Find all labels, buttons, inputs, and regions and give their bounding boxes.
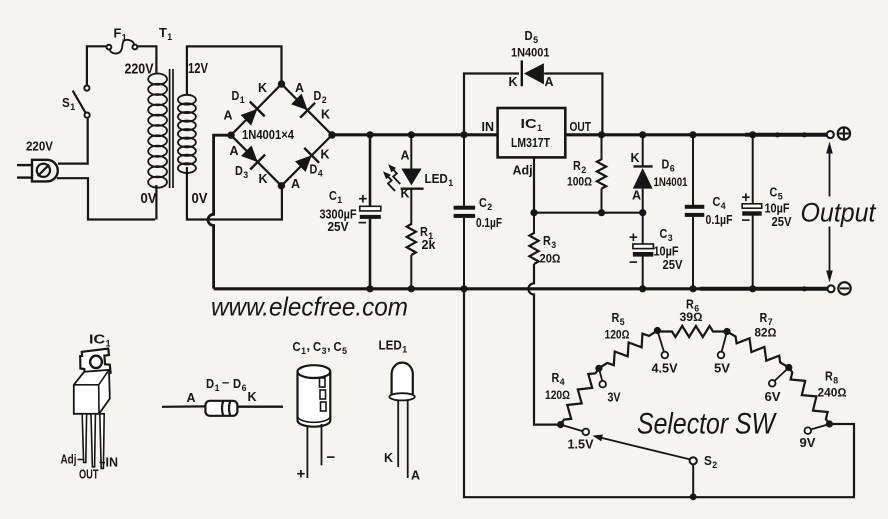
label F1	[114, 27, 128, 44]
label 6V	[765, 390, 782, 404]
label LM317T	[511, 136, 550, 150]
svg-text:IC: IC	[521, 116, 538, 131]
svg-text:T: T	[159, 26, 167, 40]
label R3 value	[540, 252, 561, 266]
label 5V	[714, 362, 731, 376]
LED LED1 light arrows	[383, 164, 400, 191]
label D6 K	[631, 151, 640, 165]
capacitor C1 plates	[360, 206, 381, 219]
svg-text:6: 6	[670, 164, 675, 175]
svg-text:LED: LED	[425, 172, 448, 186]
label R2	[573, 159, 586, 176]
node bridge bottom	[278, 182, 285, 189]
label C3 plus	[629, 229, 638, 246]
svg-text:240Ω: 240Ω	[818, 386, 847, 400]
svg-text:IN: IN	[106, 456, 119, 470]
label C3 minus	[629, 254, 638, 271]
svg-text:1: 1	[70, 102, 76, 113]
label IC1 package	[89, 332, 111, 350]
svg-text:IC: IC	[89, 332, 106, 347]
svg-text:−: −	[358, 215, 367, 232]
capacitor C4 wires	[692, 135, 694, 289]
wire Adj line	[534, 157, 643, 212]
label R1 value	[422, 238, 436, 252]
resistor R5	[599, 331, 658, 369]
svg-text:A: A	[295, 81, 304, 95]
svg-text:2: 2	[322, 95, 327, 106]
svg-text:R: R	[825, 370, 833, 384]
node C2 top	[460, 131, 467, 138]
svg-text:1: 1	[240, 95, 246, 106]
svg-text:S: S	[62, 96, 70, 110]
svg-text:1N4001: 1N4001	[654, 175, 688, 189]
label D2	[314, 89, 327, 106]
wire plug lower to transformer 0V	[57, 178, 155, 219]
label 3V	[608, 391, 622, 405]
label LED1 A	[401, 149, 410, 163]
label C2	[479, 196, 492, 213]
svg-text:LED: LED	[379, 339, 402, 353]
label OUT package	[79, 468, 99, 482]
svg-text:OUT: OUT	[79, 468, 99, 482]
wire negative bottom rail	[214, 287, 829, 290]
svg-text:220V: 220V	[125, 61, 154, 78]
label OUT	[570, 120, 592, 134]
node rail bump 2	[802, 132, 807, 137]
node LED top	[408, 131, 415, 138]
label LED A drawing	[411, 469, 420, 483]
capacitor C5 wires	[752, 135, 754, 289]
wire bridge edge D2	[282, 84, 333, 135]
wire LED branch top	[410, 135, 412, 169]
label C4	[713, 195, 727, 212]
svg-text:Output: Output	[801, 198, 877, 228]
svg-text:4: 4	[318, 169, 324, 180]
IC1 TO-220 body	[74, 370, 110, 414]
svg-text:K: K	[509, 75, 518, 89]
wire selector left drop	[464, 289, 854, 497]
svg-text:1: 1	[215, 383, 221, 394]
label S1	[62, 96, 76, 113]
svg-text:1N4001: 1N4001	[511, 46, 550, 60]
node R4 left	[557, 421, 564, 428]
node S2 bottom	[690, 493, 697, 500]
tap 6V	[769, 368, 789, 387]
svg-text:+: +	[297, 466, 306, 483]
svg-text:F: F	[114, 27, 122, 41]
node C5 top	[749, 131, 756, 138]
label 1N4001x4	[242, 128, 294, 142]
node R4 R5	[595, 365, 602, 372]
label Adj package	[61, 453, 84, 467]
svg-text:0.1µF: 0.1µF	[476, 216, 502, 230]
svg-text:D: D	[314, 89, 322, 103]
LED drawing	[389, 363, 414, 478]
label Output	[801, 198, 877, 228]
label 1.5V	[568, 438, 595, 452]
svg-text:K: K	[401, 187, 410, 201]
label R6 value	[680, 310, 703, 324]
svg-text:D: D	[662, 158, 670, 172]
label D6	[662, 158, 675, 175]
svg-text:3: 3	[243, 170, 248, 181]
IC1 leg IN	[100, 414, 104, 469]
label LED K drawing	[384, 451, 393, 465]
svg-text:A: A	[401, 149, 410, 163]
svg-text:120Ω: 120Ω	[545, 388, 570, 402]
svg-text:A: A	[632, 189, 641, 203]
svg-text:1: 1	[402, 345, 408, 356]
svg-text:R: R	[612, 311, 620, 325]
svg-text:4: 4	[721, 201, 727, 212]
label C1 plus	[359, 191, 368, 208]
svg-text:−: −	[327, 449, 336, 466]
label C1 value	[320, 208, 357, 222]
label IN package	[100, 456, 119, 470]
capacitor C5 plates	[742, 204, 762, 216]
label C1 C3 C5 drawing	[293, 338, 348, 357]
capacitor C3 wires	[642, 213, 644, 289]
svg-text:K: K	[631, 151, 640, 165]
node rail bump 1	[775, 132, 780, 137]
wire positive rail	[332, 133, 828, 136]
label R4 value	[545, 388, 570, 402]
svg-text:C: C	[329, 189, 337, 203]
svg-text:,: ,	[307, 338, 311, 353]
svg-text:–: –	[222, 375, 229, 390]
label C5 plus	[742, 189, 751, 206]
label C1 voltage	[328, 220, 350, 234]
svg-text:C: C	[293, 339, 302, 354]
node R8 right	[826, 420, 833, 427]
wire LED to R1	[410, 189, 412, 225]
svg-text:5V: 5V	[714, 362, 731, 376]
svg-text:IN: IN	[482, 120, 495, 134]
label C5	[770, 186, 784, 203]
node C4 top	[689, 131, 696, 138]
svg-text:LM317T: LM317T	[511, 136, 550, 150]
svg-text:12V: 12V	[188, 60, 208, 77]
IC1 TO-220 tab	[80, 349, 110, 376]
label R3	[543, 234, 556, 251]
label IN	[482, 120, 495, 134]
svg-text:D: D	[525, 28, 533, 43]
label D1 A	[224, 109, 233, 123]
label Selector SW	[637, 408, 777, 441]
svg-text:A: A	[291, 177, 300, 191]
label C3	[660, 227, 673, 244]
svg-text:4: 4	[560, 377, 566, 388]
switch S2 wiper arm	[592, 435, 690, 460]
node bridge right	[328, 131, 335, 138]
wire fuse to transformer	[137, 46, 156, 73]
svg-text:3: 3	[668, 233, 673, 244]
diode D4	[295, 148, 319, 172]
resistor R8	[789, 368, 830, 425]
svg-text:2k: 2k	[422, 238, 436, 252]
label R8 value	[818, 386, 847, 400]
svg-text:25V: 25V	[663, 258, 684, 272]
label S2	[704, 454, 717, 471]
resistor R2	[597, 159, 606, 188]
node Adj junction	[530, 209, 537, 216]
tap 3V	[599, 368, 606, 387]
svg-text:3: 3	[551, 240, 556, 251]
svg-text:C: C	[713, 195, 721, 209]
wire secondary bottom to bridge	[187, 167, 282, 220]
svg-text:1: 1	[337, 195, 343, 206]
label D6 A	[632, 189, 641, 203]
capacitor C4 plates	[685, 205, 705, 217]
output span arrow	[826, 142, 833, 283]
capacitor C3 plates	[633, 244, 654, 257]
wire D5 left leg	[464, 74, 519, 135]
wire plug to switch	[58, 117, 88, 163]
IC1 leg Adj	[82, 414, 86, 463]
electrolytic capacitor drawing	[298, 365, 331, 478]
svg-text:K: K	[321, 108, 330, 122]
node R2 top	[598, 131, 605, 138]
wire R3 to selector with hop	[528, 264, 560, 425]
label D2 A	[295, 81, 304, 95]
svg-text:120Ω: 120Ω	[605, 328, 630, 342]
label C5 minus	[742, 212, 751, 229]
switch S1	[73, 86, 90, 118]
svg-text:K: K	[258, 81, 267, 95]
label LED1 drawing	[379, 339, 408, 356]
label D5 A	[545, 75, 554, 89]
label 9V	[800, 436, 817, 450]
svg-text:K: K	[259, 172, 268, 186]
label R1	[420, 225, 434, 242]
node bridge top	[278, 80, 285, 87]
node C1 bottom	[366, 285, 373, 292]
node R5 R6	[654, 327, 661, 334]
label C2 value	[476, 216, 502, 230]
wire bridge edge D4	[281, 135, 332, 186]
label D2 K	[321, 108, 330, 122]
wire primary bottom	[155, 185, 157, 220]
node C3 bottom	[639, 285, 646, 292]
svg-text:10µF: 10µF	[765, 202, 790, 216]
label C3 value	[654, 245, 679, 259]
label R2 value	[567, 175, 592, 189]
node bridge left	[227, 132, 234, 139]
capacitor C2 wires	[463, 135, 465, 289]
label cap plus	[297, 466, 306, 483]
tap 5V	[718, 332, 727, 359]
svg-text:A: A	[545, 75, 554, 89]
label R6	[686, 298, 699, 315]
svg-text:2: 2	[712, 460, 717, 471]
node R6 R7	[723, 328, 730, 335]
svg-text:−: −	[629, 254, 638, 271]
svg-text:R: R	[420, 225, 428, 239]
svg-text:D: D	[310, 163, 318, 177]
svg-text:82Ω: 82Ω	[755, 326, 777, 340]
label R5 value	[605, 328, 630, 342]
svg-text:220V: 220V	[26, 140, 54, 154]
wire secondary top to bridge	[187, 46, 282, 94]
svg-text:R: R	[552, 371, 560, 385]
svg-text:C: C	[479, 196, 487, 210]
svg-text:www.elecfree.com: www.elecfree.com	[211, 292, 408, 322]
label D4 K	[321, 148, 330, 162]
svg-text:2: 2	[487, 202, 492, 213]
label R8	[825, 370, 838, 387]
svg-text:6: 6	[242, 383, 247, 394]
svg-text:1: 1	[167, 32, 173, 43]
svg-text:1: 1	[448, 178, 454, 189]
node R1 bottom	[408, 285, 415, 292]
label D4 A	[291, 177, 300, 191]
label R7	[760, 311, 773, 328]
node D6 bottom junction	[639, 209, 646, 216]
label 220V mains	[26, 140, 54, 154]
label C3 voltage	[663, 258, 684, 272]
label website	[211, 292, 408, 322]
svg-text:OUT: OUT	[570, 120, 592, 134]
node rail bump 3	[802, 286, 807, 291]
LED LED1 triangle	[401, 169, 424, 189]
svg-text:+: +	[359, 191, 368, 208]
label 0V primary	[141, 190, 157, 207]
resistor R4	[561, 368, 599, 424]
node C2 bottom	[460, 285, 467, 292]
svg-text:K: K	[248, 390, 257, 404]
label T1	[159, 26, 173, 43]
svg-text:0V: 0V	[141, 190, 157, 207]
diode D6	[633, 166, 653, 212]
transformer T1 primary winding	[148, 74, 167, 188]
node C1 top	[366, 131, 373, 138]
svg-text:D: D	[235, 164, 243, 178]
svg-text:K: K	[321, 148, 330, 162]
fuse F1	[107, 40, 138, 54]
svg-text:C: C	[334, 339, 343, 354]
wire R1 to rail	[410, 255, 412, 289]
svg-text:1: 1	[537, 123, 543, 134]
label D3	[235, 164, 248, 181]
label 4.5V	[652, 362, 679, 376]
label D3 A	[230, 144, 239, 158]
svg-text:100Ω: 100Ω	[567, 175, 592, 189]
svg-text:9V: 9V	[800, 436, 817, 450]
svg-text:R: R	[543, 234, 551, 248]
label 12V secondary	[188, 60, 208, 77]
svg-text:25V: 25V	[328, 220, 350, 234]
label IC1	[521, 116, 543, 134]
label diode A	[187, 391, 196, 405]
label 220V primary	[125, 61, 154, 78]
terminal output plus	[827, 127, 850, 139]
svg-text:D: D	[232, 89, 240, 103]
svg-text:D: D	[233, 376, 241, 391]
wire bridge edge D3	[231, 135, 281, 186]
svg-text:39Ω: 39Ω	[680, 310, 703, 324]
wire R2 top	[601, 135, 603, 160]
svg-text:R: R	[760, 311, 768, 325]
svg-text:20Ω: 20Ω	[540, 252, 561, 266]
svg-text:Selector SW: Selector SW	[637, 408, 777, 441]
svg-text:A: A	[224, 109, 233, 123]
svg-text:C: C	[313, 339, 322, 354]
mains plug P1 (220V)	[17, 160, 58, 182]
svg-text:A: A	[411, 469, 420, 483]
transformer T1 secondary winding	[178, 95, 196, 173]
svg-text:+: +	[742, 189, 751, 206]
svg-text:3V: 3V	[608, 391, 622, 405]
label R5	[612, 311, 626, 328]
svg-text:R: R	[573, 159, 581, 173]
label Adj	[513, 164, 533, 178]
svg-text:+: +	[629, 229, 638, 246]
label D5	[525, 28, 539, 46]
resistor R3	[529, 233, 538, 264]
node R2 bottom junction	[598, 209, 605, 216]
label D1-D6 drawing	[206, 375, 247, 395]
node R7 R8	[785, 364, 792, 371]
tap 4.5V	[657, 331, 668, 359]
wire D6 top	[642, 135, 644, 166]
terminal output minus	[828, 282, 851, 294]
node C5 bottom	[749, 285, 756, 292]
tap 1.5V	[561, 425, 590, 436]
svg-text:K: K	[384, 451, 393, 465]
op-amp IC1 regulator box	[498, 108, 566, 157]
label C4 value	[706, 213, 733, 227]
svg-text:A: A	[187, 391, 196, 405]
svg-text:,: ,	[327, 338, 331, 353]
node C4 bottom	[689, 285, 696, 292]
wire R3 top	[533, 213, 535, 234]
label LED1 K	[401, 187, 410, 201]
label C1 minus	[358, 215, 367, 232]
svg-text:6V: 6V	[765, 390, 782, 404]
diode D2	[291, 94, 315, 118]
label LED1	[425, 172, 454, 189]
resistor R6	[658, 326, 727, 337]
svg-text:D: D	[206, 376, 214, 391]
label D4	[310, 163, 324, 180]
label D5 K	[509, 75, 518, 89]
wire switch to fuse	[87, 46, 107, 85]
diode D3	[241, 145, 265, 169]
svg-text:−: −	[742, 212, 751, 229]
label D1 K	[258, 81, 267, 95]
label D3 K	[259, 172, 268, 186]
svg-text:Adj: Adj	[513, 164, 533, 178]
svg-text:5: 5	[342, 346, 348, 357]
diode D1	[241, 102, 265, 126]
label 0V secondary	[192, 190, 208, 207]
label R7 value	[755, 326, 777, 340]
svg-text:0V: 0V	[192, 190, 208, 207]
label diode K	[248, 390, 257, 404]
diode body drawing	[162, 401, 283, 416]
label C5 voltage	[772, 215, 793, 229]
wire R2 bottom	[601, 189, 603, 213]
label R4	[552, 371, 566, 388]
label C5 value	[765, 202, 790, 216]
tap 9V	[805, 424, 830, 434]
resistor R1	[407, 224, 416, 255]
diode D5	[522, 60, 547, 86]
svg-text:4.5V: 4.5V	[652, 362, 679, 376]
label D6 value	[654, 175, 688, 189]
svg-text:A: A	[230, 144, 239, 158]
wire bridge edge D1	[231, 84, 282, 135]
